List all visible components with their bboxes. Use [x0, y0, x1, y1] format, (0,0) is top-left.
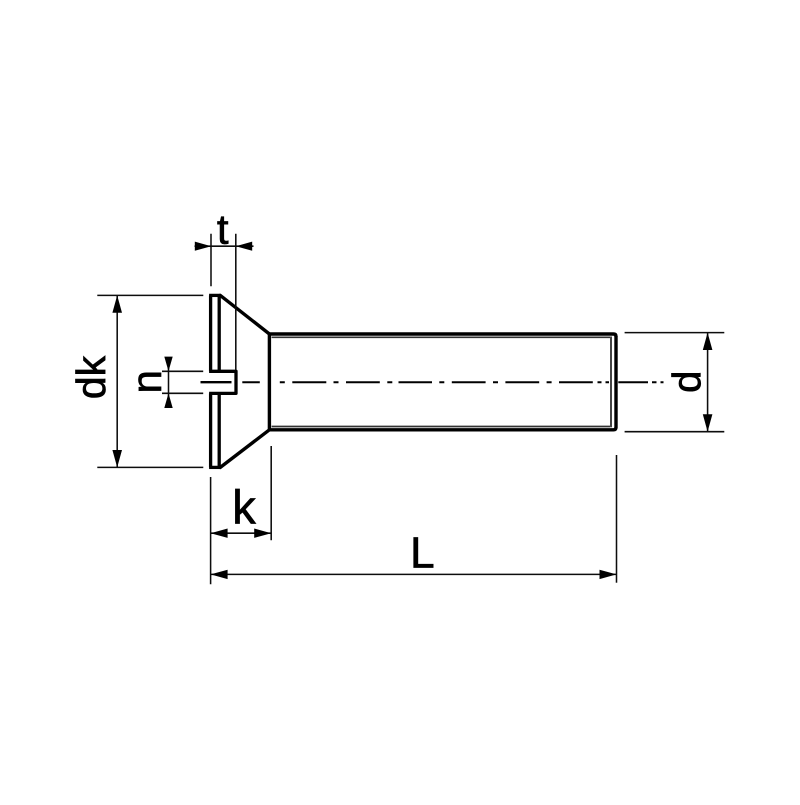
svg-text:d: d: [666, 371, 710, 393]
thread minor diameter line bottom: [272, 426, 610, 428]
dimension n: bottom arrow (outside, pointing up): [164, 393, 172, 408]
shank top outline: [269, 334, 616, 337]
countersunk cone top edge: [220, 295, 269, 334]
dimension dk: top arrow: [112, 295, 122, 312]
dimension d: extension lines: [625, 333, 725, 432]
dimension d: top arrow: [703, 333, 713, 350]
dimension k: extension lines: [211, 446, 272, 584]
dimension t: left arrow (outside, pointing right): [195, 242, 211, 251]
svg-text:t: t: [217, 205, 229, 252]
dimension d: bottom arrow: [703, 414, 713, 431]
svg-text:dk: dk: [68, 355, 114, 399]
head/shank junction line: [268, 334, 271, 430]
dimension k: left arrow: [211, 529, 228, 538]
dimension L: left arrow: [211, 570, 228, 579]
dimension t: extension lines: [211, 234, 236, 370]
dimension n: extension lines: [162, 371, 203, 393]
dimension k: dimension line: [211, 532, 272, 534]
dimension k: right arrow: [254, 529, 271, 538]
thread minor diameter line top: [272, 336, 610, 338]
dimension dk: extension lines: [97, 295, 203, 467]
svg-text:k: k: [232, 481, 256, 534]
dimension t: dimension line: [195, 245, 254, 247]
svg-text:L: L: [410, 529, 434, 578]
countersunk cone bottom edge: [220, 430, 269, 468]
dimension d: dimension line: [707, 333, 709, 432]
dimension L: right arrow: [600, 570, 617, 579]
svg-text:n: n: [123, 370, 170, 393]
screw head face outer line: [209, 295, 212, 467]
dimension dk: dimension line: [116, 295, 118, 467]
centerline solid segment through slot: [201, 381, 232, 383]
end chamfer line: [610, 337, 612, 428]
screw head bottom edge: [209, 466, 220, 469]
screw head top edge: [209, 294, 220, 297]
dimension L: right extension line: [616, 455, 618, 583]
screw head face inner line: [218, 295, 221, 467]
shank right end line: [614, 336, 617, 428]
dimension n: top arrow (outside, pointing down): [164, 357, 172, 372]
shank bottom outline: [269, 427, 616, 430]
dimension n: dimension line: [168, 358, 170, 408]
dimension L: dimension line: [211, 573, 617, 575]
dimension t: right arrow (outside, pointing left): [236, 242, 252, 251]
dimension dk: bottom arrow: [112, 450, 122, 467]
slot (t depth): [209, 371, 236, 393]
centerline dash-dot: [242, 381, 663, 383]
